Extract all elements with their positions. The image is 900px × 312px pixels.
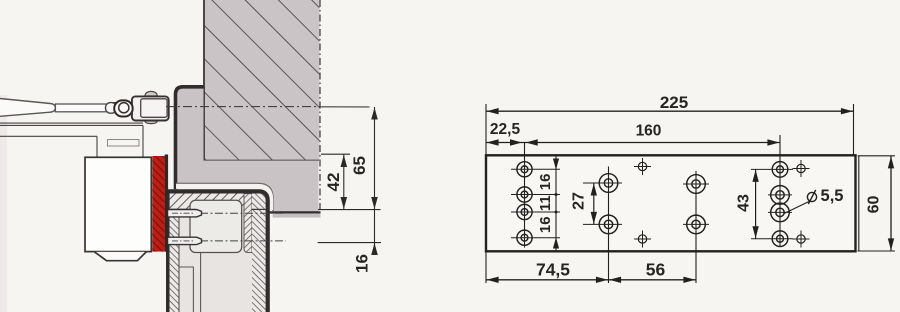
frame profile (grey L-shape) [177,85,318,211]
interior fill [170,194,252,312]
wall (hatched masonry) [204,0,320,161]
svg-text:27: 27 [571,192,588,210]
arm (tapered bar + rod) [0,98,122,116]
dimension 74,5 and 56 [486,279,609,281]
door closer body [85,157,151,260]
interior thin lines [179,267,194,312]
svg-text:56: 56 [646,259,666,279]
dimension 43 (right hole group) [755,169,757,238]
svg-text:11: 11 [537,195,554,211]
small cross marker holes (middle column) [634,158,651,248]
fixing screws [168,210,287,245]
center/extension lines [486,104,895,283]
svg-text:43: 43 [736,194,753,212]
chevron outer band [252,194,266,312]
center line (dash-dot) [166,106,320,108]
svg-text:16: 16 [353,254,372,273]
frame top edge + face line (rounded corner) [176,87,204,190]
mounting plate outline [486,155,856,251]
face line [166,190,170,312]
pivot bracket [106,91,169,123]
dimension 225 [486,110,854,112]
svg-text:42: 42 [324,173,343,192]
left dimension extension lines [318,107,381,249]
white notch between frame lip and door [176,186,271,210]
scan shading band at left edge [0,95,7,312]
left dimension arrowheads [341,108,378,256]
svg-text:65: 65 [350,156,369,175]
dimension 60 [890,156,892,251]
closer bottom cap [95,252,147,261]
svg-text:160: 160 [636,122,662,139]
slide rails above body [0,123,143,156]
red mounting plate [152,155,168,252]
top edge + right edge (thick, rounded corner) [166,191,268,312]
holes column A (x=524.5) [511,162,560,246]
band bottom thin edge [170,208,191,210]
svg-text:60: 60 [865,196,882,214]
svg-text:74,5: 74,5 [536,259,570,279]
wall broken right edge (dash-dot) [319,0,321,211]
screw 2 (lower) with axis line [168,237,287,244]
holes columns B and C [583,174,709,234]
left wall hatch [170,209,179,312]
svg-text:225: 225 [660,93,688,112]
svg-text:5,5: 5,5 [821,187,844,205]
channel (rounded light slot) [190,200,242,252]
svg-text:16: 16 [537,216,554,233]
frame bottom edge [270,211,321,213]
chevron inner bar (reverse hatch, rounded bottom) [244,194,252,253]
svg-text:22,5: 22,5 [490,121,521,138]
holes column D (x=780) [751,162,793,247]
diameter callout leader and symbol Ø 5,5 [784,202,809,214]
dimension 27 (middle) [593,183,595,224]
screw 1 (upper) with axis line [168,210,287,217]
frame bottom shadow [273,214,321,218]
svg-text:16: 16 [537,174,554,191]
dimension 22,5 and 160 [486,142,525,144]
dimension 16/11/16 (left hole group) [555,157,557,251]
door leaf [166,190,268,312]
top rail hatch band (reverse sparse hatch) [170,193,252,210]
small cross marker holes (right column) [793,160,810,248]
frame lip outline [176,183,273,211]
